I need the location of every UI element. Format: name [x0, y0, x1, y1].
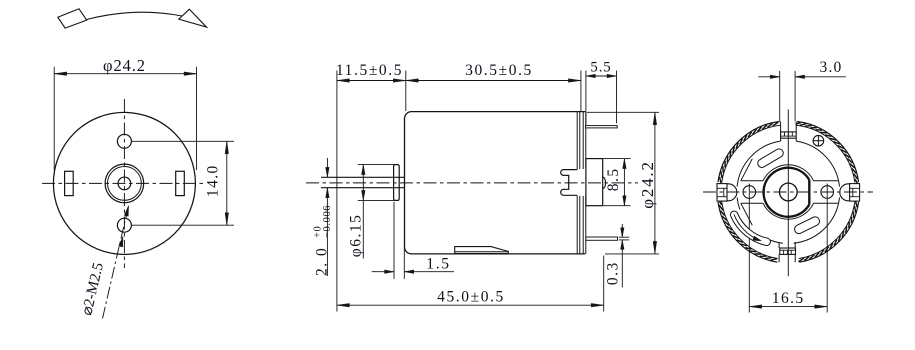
svg-text:2. 0: 2. 0	[314, 247, 331, 276]
svg-text:−0.006: −0.006	[322, 205, 333, 238]
svg-text:8.5: 8.5	[605, 167, 622, 191]
svg-text:1.5: 1.5	[426, 256, 450, 273]
svg-text:16.5: 16.5	[772, 290, 805, 307]
svg-text:3.0: 3.0	[820, 59, 843, 76]
svg-text:30.5±0.5: 30.5±0.5	[465, 62, 533, 79]
svg-text:45.0±0.5: 45.0±0.5	[437, 289, 505, 306]
svg-text:φ6.15: φ6.15	[348, 214, 365, 258]
svg-text:14.0: 14.0	[205, 164, 222, 197]
svg-text:0.3: 0.3	[605, 261, 622, 285]
svg-text:φ24.2: φ24.2	[638, 160, 657, 209]
svg-text:11.5±0.5: 11.5±0.5	[336, 62, 403, 79]
svg-text:φ24.2: φ24.2	[103, 56, 146, 75]
svg-text:5.5: 5.5	[590, 60, 611, 76]
